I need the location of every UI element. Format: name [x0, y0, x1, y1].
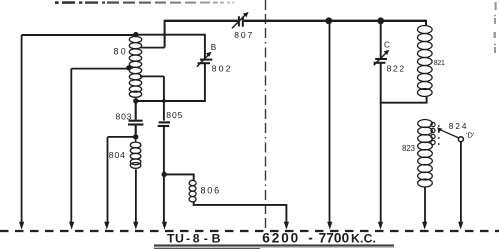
svg-text:806: 806 [201, 185, 221, 195]
wire: drop from rail junction 1 to ground bus [329, 21, 331, 224]
coil L804 [130, 137, 141, 173]
title underline [154, 245, 394, 246]
wire: 822 branch lower vertical and bottom link [381, 63, 427, 103]
ground arrow 8 [378, 222, 383, 230]
svg-text:-: - [308, 230, 313, 245]
coil 823 tap circles [431, 122, 435, 144]
svg-text:B: B [211, 43, 217, 52]
vertical dash-dot partition line [265, 0, 267, 230]
ground arrow 5 [162, 222, 167, 230]
secondary underline [154, 248, 260, 249]
ground arrow 7 [327, 222, 332, 230]
node: 806 tap junction [162, 172, 167, 177]
svg-text:802: 802 [212, 63, 233, 73]
wire: node to 802 top [136, 35, 205, 59]
switch S824 contact [458, 137, 463, 142]
ground arrow 4 [133, 222, 138, 230]
coil L801 [129, 35, 141, 100]
svg-text:805: 805 [166, 110, 183, 120]
wire: 823 bottom to ground bus [424, 187, 426, 224]
torn top dash-dot edge line [55, 1, 234, 4]
svg-text:822: 822 [387, 64, 406, 74]
svg-text:803: 803 [116, 111, 133, 121]
svg-text:K.C.: K.C. [351, 231, 376, 245]
svg-text:823: 823 [402, 144, 415, 153]
node: small junction at 805 crossing [162, 99, 166, 103]
node: coil 801 bottom junction [133, 98, 138, 103]
coil L821 [418, 26, 433, 97]
coil L806 [189, 180, 196, 202]
wire: top rail left segment [165, 20, 238, 22]
node: 803 bottom junction [133, 134, 138, 139]
bottom ground bus dashed line [0, 230, 499, 232]
wire: coil tap A to rail stub [141, 47, 165, 49]
wire: 822 node to ground bus [380, 103, 382, 224]
wire: top rail right segment [244, 20, 426, 22]
ground arrow 6 [284, 222, 289, 230]
svg-text:80: 80 [114, 47, 129, 57]
svg-text:TU-8-B: TU-8-B [167, 232, 221, 246]
svg-text:C: C [384, 41, 390, 50]
wire: 822 branch upper vertical [380, 21, 382, 58]
wire: tap C to 805 branch (y=76.4) [140, 75, 164, 77]
coil 823 tap dots [438, 125, 440, 145]
wire: left vertical to ground bus [21, 35, 23, 224]
node: coil 801 top junction [133, 32, 138, 37]
ground arrow 2 [69, 222, 74, 230]
svg-text:‘D’: ‘D’ [466, 130, 475, 139]
svg-text:821: 821 [434, 60, 445, 67]
wire: 803 bottom to left drop [108, 136, 136, 138]
coil L823 [418, 120, 433, 188]
wire: bottom of 802 loop (y=101) [136, 64, 205, 101]
wire: 805 branch vertical upper [163, 76, 165, 120]
wire: top-left node horizontal (y=34.7) [22, 34, 136, 36]
ground arrow 1 [19, 222, 24, 230]
ground arrow 3 [104, 222, 109, 230]
wire: rail stub down to coil tap (x=164.6) [164, 20, 166, 48]
wire: tap B to left vertical (y=68) [71, 68, 129, 70]
wire: 805 lower vertical to ground bus [163, 126, 165, 224]
wire: 806 bottom to right drop [194, 202, 287, 224]
wire: junction to coil 806 [164, 174, 194, 180]
ground arrow 9 [422, 222, 427, 230]
node: rail junction 1 [325, 17, 332, 24]
ground arrow 10 [458, 222, 463, 230]
svg-text:6200: 6200 [262, 230, 300, 245]
variable capacitor C802 [197, 52, 213, 67]
switch S824 arm [437, 127, 459, 138]
capacitor C805 [158, 122, 170, 126]
faint page-edge text fragments [494, 2, 497, 53]
capacitor C803 [128, 101, 143, 136]
svg-text:804: 804 [109, 150, 126, 160]
wire: drop to ground bus [107, 137, 109, 224]
wire: 804 bottom to ground bus [135, 170, 137, 224]
variable capacitor C807 [232, 12, 249, 28]
variable capacitor C822 [374, 50, 390, 66]
node: tap B junction [126, 65, 131, 70]
wire: switch contact to ground bus [460, 142, 462, 224]
wire: second left vertical to ground bus [70, 69, 72, 224]
node: rail junction 2 [377, 17, 384, 24]
svg-text:7700: 7700 [319, 230, 350, 245]
svg-text:807: 807 [234, 30, 254, 40]
wire: rail right end into coil 821 [425, 20, 427, 26]
